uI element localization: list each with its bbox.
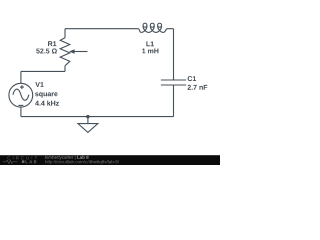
V1 minus sign bbox=[18, 104, 23, 106]
ground triangle bbox=[78, 124, 98, 133]
label V1 bbox=[35, 82, 43, 87]
source V1 circle bbox=[9, 83, 33, 107]
wire bottom rail bbox=[21, 116, 174, 118]
wire R1 bottom stub bbox=[64, 66, 66, 72]
label R1 bbox=[48, 41, 56, 46]
R1 wiper arrow shaft bbox=[74, 51, 87, 53]
logo squiggle bbox=[3, 160, 18, 163]
watermark url line bbox=[45, 160, 119, 164]
logo CIRCUIT text bbox=[8, 156, 38, 159]
watermark bar bbox=[0, 155, 220, 165]
value 1 mH bbox=[142, 49, 158, 54]
wire right rail bbox=[173, 29, 175, 80]
value 4.4 kHz bbox=[35, 101, 59, 106]
value 2.7 nF bbox=[188, 85, 208, 90]
inductor L1 coil entry bbox=[138, 29, 141, 33]
logo square bbox=[22, 160, 25, 163]
value 52.5 ohm bbox=[36, 49, 57, 54]
wire ground stub bbox=[87, 117, 89, 124]
R1 wiper arrowhead bbox=[69, 49, 75, 53]
label C1 bbox=[188, 76, 197, 81]
inductor L1 loop 3 bbox=[158, 23, 162, 27]
wire V1 bottom stub bbox=[20, 107, 22, 116]
node junction dot (ground) bbox=[86, 115, 90, 119]
logo LAB text bbox=[26, 160, 37, 163]
resistor R1 zigzag bbox=[60, 38, 70, 66]
inductor L1 loop 1 bbox=[143, 23, 147, 27]
wire top rail bbox=[65, 28, 138, 30]
value square bbox=[35, 92, 58, 97]
wire V1-to-R1 horizontal bbox=[21, 70, 65, 72]
capacitor C1 bottom plate bbox=[161, 84, 186, 86]
wire C1 bottom stub bbox=[173, 85, 175, 117]
V1 plus sign bbox=[20, 85, 24, 89]
wire R1 top stub bbox=[64, 29, 66, 38]
V1 sine wave bbox=[13, 89, 29, 100]
inductor L1 loop 2 bbox=[150, 23, 154, 27]
inductor L1 coil exit bbox=[163, 29, 173, 33]
capacitor C1 top plate bbox=[161, 79, 186, 81]
wire V1 top stub bbox=[20, 71, 22, 83]
watermark author line bbox=[45, 156, 75, 160]
label L1 bbox=[146, 41, 154, 46]
